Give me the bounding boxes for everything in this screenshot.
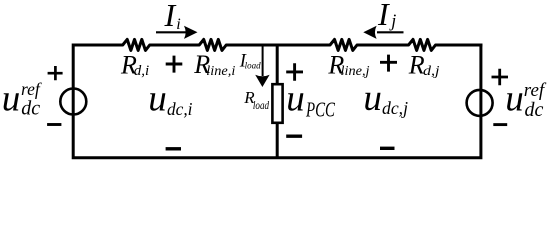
svg-text:u: u [363,78,382,119]
svg-text:u: u [505,79,524,120]
svg-text:u: u [2,79,21,120]
svg-text:I: I [377,0,390,32]
svg-text:dc: dc [21,98,40,120]
svg-text:PCC: PCC [305,98,335,122]
svg-text:load: load [245,60,262,70]
svg-text:dc: dc [525,99,544,121]
svg-text:j: j [389,11,396,31]
svg-text:d,j: d,j [423,64,440,79]
svg-text:i: i [176,16,180,33]
svg-text:I: I [164,0,177,33]
svg-text:u: u [286,79,305,120]
svg-text:line,i: line,i [206,64,235,79]
svg-text:dc,i: dc,i [167,99,193,119]
svg-text:d,i: d,i [134,63,149,79]
svg-text:line,j: line,j [341,64,370,79]
svg-text:u: u [148,79,167,120]
svg-text:dc,j: dc,j [382,98,408,118]
svg-text:ref: ref [524,80,547,101]
svg-text:ref: ref [21,79,42,99]
svg-text:load: load [253,100,269,112]
